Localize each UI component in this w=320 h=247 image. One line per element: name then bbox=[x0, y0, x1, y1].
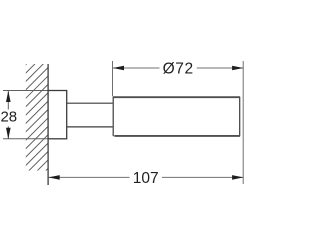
28 dim bottom extension line bbox=[3, 138, 49, 140]
svg-text:107: 107 bbox=[133, 170, 159, 187]
28 up arrow bbox=[6, 91, 11, 102]
wall hatch bbox=[10, 20, 70, 214]
dia72 left arrow bbox=[113, 66, 124, 71]
arm top edge bbox=[67, 102, 114, 104]
holder top rim bbox=[113, 96, 240, 98]
dia72 left extension line bbox=[112, 61, 114, 96]
holder left edge bbox=[112, 97, 114, 136]
dia72 dimension line right segment bbox=[197, 67, 243, 69]
107 dimension line left segment bbox=[48, 176, 129, 178]
holder right edge bbox=[239, 97, 241, 136]
28 dimension line bottom segment bbox=[7, 126, 9, 138]
28 dimension line top segment bbox=[7, 91, 9, 110]
dia72 right arrow bbox=[232, 66, 243, 71]
right shared extension line bbox=[242, 61, 244, 184]
svg-text:Ø72: Ø72 bbox=[163, 61, 194, 78]
wall surface line bbox=[47, 64, 49, 185]
holder bottom rim bbox=[114, 135, 240, 137]
dia72 dimension line left segment bbox=[113, 67, 160, 69]
28 down arrow bbox=[6, 128, 11, 139]
107 right arrow bbox=[232, 175, 243, 180]
mounting plate bbox=[48, 91, 67, 139]
28 dim top extension line bbox=[3, 90, 49, 92]
107 dimension line right segment bbox=[162, 176, 243, 178]
holder body bbox=[113, 96, 241, 137]
svg-text:28: 28 bbox=[0, 109, 17, 126]
107 left arrow bbox=[48, 175, 59, 180]
arm bottom edge bbox=[67, 126, 114, 128]
